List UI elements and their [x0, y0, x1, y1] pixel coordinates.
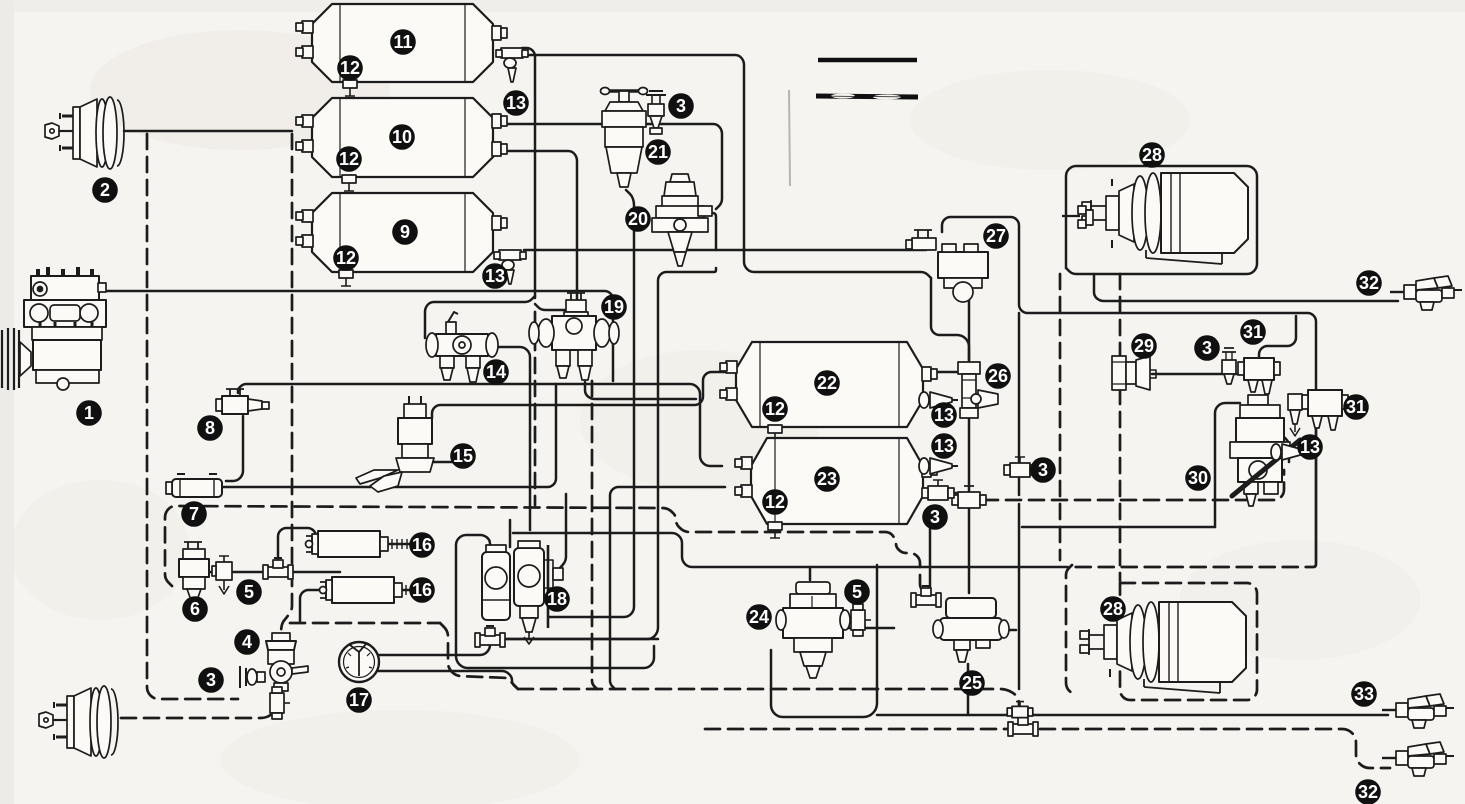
svg-text:26: 26 [988, 366, 1008, 386]
label badge 23 [814, 466, 840, 492]
label badge 5 [844, 579, 870, 605]
svg-text:16: 16 [412, 580, 432, 600]
wire x535 to valve14 left [425, 296, 535, 338]
wire valve27 left loop [931, 278, 969, 360]
wire valve29 to valve3 to valve31 [1152, 373, 1242, 376]
trailer supply valve 25 [933, 598, 1009, 662]
label badge 10 [389, 124, 415, 150]
label badge 4 [234, 629, 260, 655]
label badge 12 [333, 245, 359, 271]
wire x1120 dashed link [1119, 274, 1122, 581]
svg-text:3: 3 [676, 96, 686, 116]
wire chamber28b loop [1120, 583, 1257, 700]
svg-text:12: 12 [765, 492, 785, 512]
wire valve8 down to silencer [226, 416, 243, 481]
label badge 28 [1139, 142, 1165, 168]
wire valve25 up riser [929, 508, 932, 590]
compressor 1 (air compressor) [2, 267, 106, 390]
svg-text:31: 31 [1243, 322, 1263, 342]
wire gauge tee right [497, 638, 658, 641]
wire valve19 drain dashed [592, 381, 597, 689]
air reservoir 23 [735, 438, 937, 538]
wire valve30 supply horiz [1022, 526, 1215, 529]
label badge 16 [409, 532, 435, 558]
double protection valve 19 [529, 293, 619, 380]
wire handbrake dashed via x448 [440, 623, 518, 689]
wire valve24 top stub [809, 567, 812, 580]
check valve 13 (tank 11) [496, 48, 528, 82]
wire cross down to valve25 [968, 504, 971, 593]
wire chamber28t loop [1066, 166, 1257, 274]
svg-text:13: 13 [934, 405, 954, 425]
wire valve8 up to tank23 upper port [238, 384, 722, 466]
wire valve30 right jog [1305, 407, 1316, 410]
label badge 7 [181, 501, 207, 527]
wire filter21 down long x634 [549, 190, 634, 617]
svg-text:12: 12 [340, 58, 360, 78]
pressure regulator 20 [652, 174, 712, 266]
valve 5 (left) [212, 556, 232, 594]
svg-text:28: 28 [1103, 599, 1123, 619]
wire valve18 left loop [456, 535, 654, 668]
test valve 13 (tank 22) [919, 392, 958, 408]
wire front axle dashed y567 [1072, 561, 1316, 567]
label badge 31 [1343, 394, 1369, 420]
label badge 22 [814, 370, 840, 396]
label badge 16 [409, 577, 435, 603]
wire bottom dashed long2 [1040, 729, 1390, 768]
svg-text:16: 16 [412, 535, 432, 555]
svg-text:6: 6 [190, 599, 200, 619]
wire main dashed distribution [165, 506, 926, 594]
wire compressor discharge [104, 291, 613, 381]
spring brake chamber 28 (top) [1082, 173, 1248, 264]
hand brake control valve 4 [266, 633, 308, 691]
wire valve19 bottom to jog [585, 382, 696, 399]
label badge 24 [746, 604, 772, 630]
label badge 17 [346, 687, 372, 713]
svg-text:25: 25 [962, 673, 982, 693]
air reservoir 11 [296, 4, 507, 96]
wire chamber2b line [121, 694, 277, 718]
wire valve26 down to cross [968, 416, 971, 496]
port fitting (chamber 28 top) [1062, 206, 1093, 228]
drain valve (near 31) [1288, 394, 1302, 436]
svg-text:22: 22 [817, 373, 837, 393]
wire silencer to riser [222, 384, 556, 487]
wire x535 to valve19 stem [535, 304, 566, 310]
brake chamber 2 (front axle, top) [45, 97, 124, 169]
label badge 13 [931, 402, 957, 428]
label badge 3 [1194, 335, 1220, 361]
wire valve20 top right feed [709, 213, 716, 250]
label badge 12 [336, 146, 362, 172]
hand brake valve 15 [356, 396, 458, 492]
svg-text:14: 14 [486, 362, 506, 382]
wire tank22 left port to valve15 [432, 372, 726, 418]
label badge 30 [1185, 465, 1211, 491]
svg-text:31: 31 [1346, 397, 1366, 417]
fitting 29 [1112, 356, 1156, 390]
svg-text:1: 1 [84, 403, 94, 423]
label badge 1 [76, 400, 102, 426]
svg-text:17: 17 [349, 690, 369, 710]
wire regulator20 out down x658 [497, 268, 716, 639]
valve 3 (bottom left) [240, 666, 265, 688]
svg-text:5: 5 [244, 582, 254, 602]
label badge 11 [390, 29, 416, 55]
wire tee up to cyl16a [278, 528, 316, 570]
air reservoir 10 [296, 98, 507, 191]
label badge 18 [544, 586, 570, 612]
svg-text:3: 3 [206, 670, 216, 690]
label badge 3 [922, 504, 948, 530]
pressure limit valve 27 [906, 230, 988, 302]
wire valve30 supply riser [1215, 403, 1240, 527]
wire cyl16b left stub [300, 590, 326, 621]
svg-text:9: 9 [400, 222, 410, 242]
check valve 13 (tank 9) [494, 250, 526, 284]
label badge 9 [392, 219, 418, 245]
wire cross to valve30 dashed [983, 470, 1284, 500]
coupling head 32 (top right) [1390, 276, 1462, 310]
release cylinder 16 (upper) [306, 531, 417, 557]
coupling head 33 [1382, 694, 1454, 728]
fitting (y715/y729 link) [1007, 702, 1033, 718]
label badge 15 [450, 443, 476, 469]
label badge 14 [483, 359, 509, 385]
svg-text:13: 13 [506, 93, 526, 113]
svg-text:10: 10 [392, 127, 412, 147]
svg-text:11: 11 [393, 32, 412, 52]
wire valve24 loop [771, 565, 877, 717]
label badge 27 [983, 223, 1009, 249]
brake chamber 2 (front axle, bottom) [39, 686, 118, 758]
wire front axle dashed drop A [147, 134, 238, 699]
svg-text:32: 32 [1359, 273, 1379, 293]
label badge 33 [1351, 681, 1377, 707]
legend hose symbol [816, 94, 918, 100]
wire right trunk x1016 lower [1018, 504, 1021, 689]
svg-text:13: 13 [934, 436, 954, 456]
test valve 13 (tank 23) [919, 458, 958, 474]
wire gauge line lower to dashed main [378, 671, 518, 689]
svg-text:32: 32 [1358, 782, 1378, 802]
brake valve 14 [426, 312, 498, 382]
label badge 20 [625, 206, 651, 232]
safety valve 3 (on dryer) [646, 91, 666, 134]
svg-text:33: 33 [1354, 684, 1374, 704]
valve 31 (top) [1238, 358, 1280, 394]
release cylinder 16 (lower) [320, 577, 431, 603]
label badge 13 [1297, 434, 1323, 460]
svg-text:28: 28 [1142, 145, 1162, 165]
label badge 8 [197, 415, 223, 441]
wire bottom dashed long [705, 728, 1009, 731]
wire valve6 to tee to cyl16 [206, 571, 340, 574]
wire x1316 below valve31r [1315, 427, 1318, 560]
wire tank22 right port [928, 371, 961, 374]
trailer brake valve 18 [482, 541, 563, 644]
valve 3 (trunk x1019) [1004, 457, 1036, 477]
hand brake valve 30 [1230, 395, 1300, 506]
scan fold artifact [789, 90, 790, 186]
valve 3 (near 29) [1222, 348, 1236, 384]
shutoff valve (chamber2b line) [270, 687, 290, 719]
label badge 12 [762, 489, 788, 515]
wire valve27 bottom to valve26 [968, 298, 971, 362]
wire tank11 valve13 to valve27 left [528, 55, 931, 278]
svg-text:12: 12 [336, 248, 356, 268]
tee fitting (line 6-5) [263, 558, 293, 579]
test valve 13 (near 30) [1271, 444, 1310, 460]
wire valve14 right to valve24 trunk [490, 347, 530, 530]
label badge 32 [1356, 270, 1382, 296]
label badge 13 [931, 433, 957, 459]
label badge 12 [337, 55, 363, 81]
limit valve 8 [216, 389, 269, 414]
wire tank10 upper port to dryer [497, 124, 722, 209]
label badge 31 [1240, 319, 1266, 345]
wire valve27 up and right trunk [942, 217, 1316, 560]
svg-text:20: 20 [628, 209, 648, 229]
svg-text:21: 21 [648, 142, 668, 162]
svg-text:8: 8 [205, 418, 215, 438]
label badge 25 [959, 670, 985, 696]
svg-text:30: 30 [1188, 468, 1208, 488]
svg-text:29: 29 [1134, 336, 1154, 356]
label badge 19 [601, 294, 627, 320]
pressure gauge 17 [339, 642, 379, 682]
wire tank23 lower port down [610, 487, 725, 689]
pressure reducer 6 [179, 542, 209, 600]
air dryer/filter 21 [601, 88, 648, 188]
svg-text:12: 12 [765, 399, 785, 419]
wire x1066 drop to chamber28b [1066, 565, 1074, 695]
svg-text:2: 2 [100, 180, 110, 200]
label badge 26 [985, 363, 1011, 389]
label badge 12 [762, 396, 788, 422]
wire valve18 top riser b [509, 520, 512, 547]
svg-text:19: 19 [604, 297, 624, 317]
svg-text:13: 13 [1300, 437, 1320, 457]
svg-text:3: 3 [1038, 460, 1048, 480]
svg-text:4: 4 [242, 632, 252, 652]
legend solid pipe symbol [818, 58, 917, 63]
svg-text:3: 3 [930, 507, 940, 527]
wire valve25 bottom drop [967, 664, 970, 715]
wire x535 dashed lower [534, 312, 537, 505]
svg-text:24: 24 [749, 607, 769, 627]
coupling head 32 (bottom right) [1382, 742, 1454, 776]
svg-text:15: 15 [453, 446, 473, 466]
air reservoir 9 [296, 193, 507, 286]
wire chamber2 output line [124, 130, 292, 133]
label badge 29 [1131, 333, 1157, 359]
tee fitting (bottom right) [1008, 715, 1038, 736]
label badge 21 [645, 139, 671, 165]
label badge 2 [92, 177, 118, 203]
svg-text:27: 27 [986, 226, 1006, 246]
wire gauge line upper [378, 634, 490, 655]
silencer 7 [166, 474, 222, 497]
valve 3 (tank 23) [922, 480, 954, 500]
cross fitting (node tank23) [952, 486, 986, 508]
tee fitting (gauge line) [475, 626, 505, 647]
svg-text:5: 5 [852, 582, 862, 602]
wire x535 column [522, 48, 535, 298]
quick release valve 26 [958, 362, 998, 418]
wire x1060 dashed link [1059, 274, 1062, 560]
trailer control valve 24 [776, 582, 850, 678]
label badge 3 [198, 667, 224, 693]
wire valve24 right to riser [845, 627, 894, 630]
wire valve25 right to trunk [1000, 629, 1016, 632]
label badge 3 [668, 93, 694, 119]
svg-text:18: 18 [547, 589, 567, 609]
label badge 5 [236, 579, 262, 605]
spring brake chamber 28 (bottom) [1080, 602, 1246, 693]
air reservoir 22 [720, 342, 937, 441]
svg-text:12: 12 [339, 149, 359, 169]
wire bottom solid long [877, 714, 1388, 717]
wire tank23 right port [923, 492, 962, 495]
wire tank9 supply y250 to valve27 [524, 249, 926, 252]
label badge 3 [1030, 457, 1056, 483]
label badge 28 [1100, 596, 1126, 622]
wire handbrake dashed y623 run [290, 622, 440, 625]
wire valve31 top riser [1259, 316, 1296, 358]
svg-text:7: 7 [189, 504, 199, 524]
label badge 13 [503, 90, 529, 116]
tee fitting (valve25 feed) [911, 586, 941, 607]
wire chamber28t out to 32t [1094, 274, 1398, 301]
wire front axle dashed drop B [281, 134, 292, 631]
wire bottom dashed main [518, 689, 1019, 720]
valve 31 (right) [1302, 390, 1348, 430]
wire valve18 feeders [560, 494, 566, 568]
wire valve30 to 13 loop [1283, 436, 1289, 462]
label badge 32 [1355, 779, 1381, 804]
svg-text:13: 13 [485, 266, 505, 286]
wire tank10 lower port to valve19 [497, 151, 577, 302]
wire valve18 to valve24 supply [513, 533, 1068, 567]
label badge 13 [482, 263, 508, 289]
wire right trunk x1019 [1018, 313, 1021, 495]
valve 5 (right) [851, 604, 871, 636]
svg-text:3: 3 [1202, 338, 1212, 358]
svg-text:23: 23 [817, 469, 837, 489]
label badge 6 [182, 596, 208, 622]
